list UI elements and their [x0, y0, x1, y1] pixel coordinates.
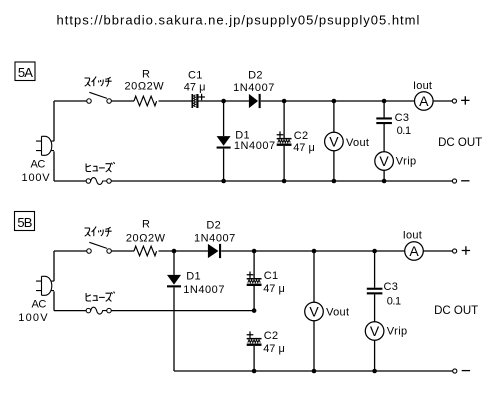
svg-text:V: V — [309, 304, 319, 320]
svg-text:D2: D2 — [248, 69, 263, 81]
svg-text:47 μ: 47 μ — [263, 343, 285, 355]
svg-text:DC OUT: DC OUT — [438, 137, 482, 149]
svg-text:1N4007: 1N4007 — [183, 284, 225, 296]
svg-text:C3: C3 — [384, 281, 399, 293]
svg-text:R: R — [142, 218, 150, 230]
svg-text:Vout: Vout — [346, 137, 369, 149]
svg-text:V: V — [370, 323, 380, 339]
svg-text:1N4007: 1N4007 — [194, 233, 236, 245]
svg-text:C3: C3 — [395, 112, 410, 124]
svg-text:47 μ: 47 μ — [184, 81, 206, 93]
svg-text:20Ω2W: 20Ω2W — [126, 233, 166, 245]
svg-text:R: R — [142, 68, 150, 80]
svg-text:0.1: 0.1 — [397, 125, 411, 137]
svg-text:AC: AC — [31, 158, 46, 170]
svg-text:V: V — [379, 153, 389, 169]
svg-text:D1: D1 — [186, 270, 201, 282]
svg-text:5B: 5B — [17, 215, 31, 230]
svg-text:DC OUT: DC OUT — [434, 305, 478, 317]
svg-text:A: A — [409, 243, 419, 259]
svg-text:Vrip: Vrip — [387, 326, 408, 338]
svg-text:20Ω2W: 20Ω2W — [125, 81, 165, 93]
svg-text:https://bbradio.sakura.ne.jp/p: https://bbradio.sakura.ne.jp/psupply05/p… — [57, 13, 420, 28]
svg-text:Vout: Vout — [326, 307, 349, 319]
svg-text:100V: 100V — [22, 172, 51, 184]
svg-text:100V: 100V — [18, 312, 49, 324]
svg-text:C2: C2 — [294, 130, 309, 142]
svg-text:AC: AC — [32, 299, 47, 311]
svg-text:C2: C2 — [264, 330, 279, 342]
svg-text:D2: D2 — [206, 219, 221, 231]
svg-text:47 μ: 47 μ — [263, 283, 285, 295]
svg-text:C1: C1 — [188, 69, 203, 81]
svg-text:C1: C1 — [264, 270, 279, 282]
svg-text:Vrip: Vrip — [396, 155, 417, 167]
svg-text:1N4007: 1N4007 — [233, 82, 275, 94]
svg-text:5A: 5A — [18, 65, 33, 80]
svg-text:0.1: 0.1 — [387, 296, 401, 308]
svg-text:V: V — [329, 134, 339, 150]
svg-text:47 μ: 47 μ — [293, 142, 315, 154]
svg-text:A: A — [419, 93, 429, 109]
svg-text:1N4007: 1N4007 — [234, 140, 276, 152]
svg-text:Iout: Iout — [403, 230, 422, 242]
svg-text:Iout: Iout — [413, 80, 432, 92]
